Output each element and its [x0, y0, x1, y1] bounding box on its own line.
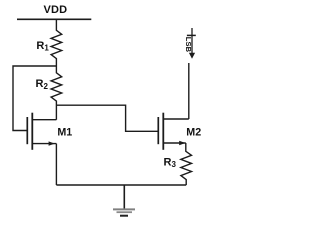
svg-text:R1: R1 [36, 40, 49, 53]
svg-text:LSB: LSB [184, 37, 193, 53]
svg-text:R3: R3 [164, 156, 177, 169]
svg-text:R2: R2 [36, 78, 49, 91]
svg-text:M2: M2 [186, 127, 201, 139]
svg-text:VDD: VDD [43, 4, 67, 16]
svg-text:M1: M1 [57, 127, 72, 139]
